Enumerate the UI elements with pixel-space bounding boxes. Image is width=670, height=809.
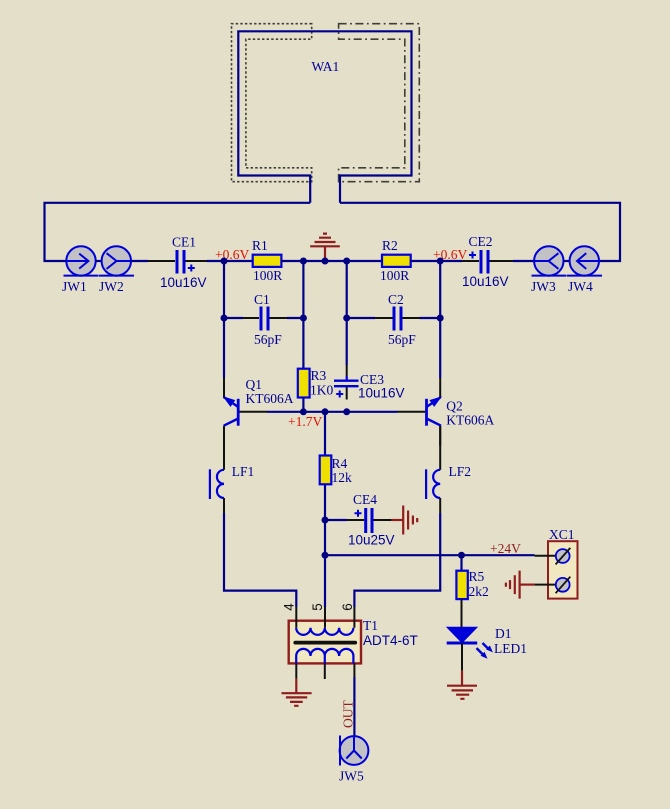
ground G5 (sideways left of XC1 pin2) [506, 571, 535, 599]
svg-text:10u16V: 10u16V [358, 386, 405, 401]
wire JW1-JW2 [96, 260, 102, 262]
wire right rail down (node to C2 to Q2) [439, 261, 441, 378]
svg-text:R3: R3 [311, 368, 327, 383]
wire CE2 to JW3 [513, 260, 534, 262]
svg-text:10u16V: 10u16V [462, 274, 509, 289]
svg-text:10u16V: 10u16V [160, 275, 207, 290]
svg-text:LF2: LF2 [449, 464, 472, 479]
junction ground stem top rail [322, 258, 329, 265]
ground G1 top (inverted) [310, 234, 340, 261]
wire R4 rail to +24V rail [324, 520, 326, 555]
wire LF1 down and to T1 pin4 [224, 513, 296, 607]
connector JW1 [64, 246, 99, 275]
wire antenna-left to JW1 [45, 203, 311, 261]
svg-text:+1.7V: +1.7V [288, 414, 322, 429]
junction CE4-left [322, 517, 329, 524]
junction R2-left [343, 258, 350, 265]
svg-text:JW5: JW5 [339, 769, 364, 784]
resistor R3 [298, 353, 310, 411]
svg-text:6: 6 [340, 603, 355, 611]
capacitor CE4 [325, 508, 392, 533]
ground G2 under T1 [282, 679, 312, 706]
svg-text:C1: C1 [254, 292, 270, 307]
wire mid-left rail down (R2-left to C2 to CE3) [346, 261, 348, 365]
svg-text:2k2: 2k2 [469, 584, 489, 599]
wire antenna-right to JW4 [340, 203, 620, 261]
ground G4 (sideways right of CE4) [392, 506, 418, 535]
inductor LF1 [210, 426, 224, 513]
resistor R2 [382, 255, 411, 267]
transistor Q2 [398, 378, 442, 446]
svg-text:LF1: LF1 [232, 464, 255, 479]
junction C1-right [300, 315, 307, 322]
svg-text:XC1: XC1 [549, 527, 575, 542]
capacitor CE2 [462, 250, 513, 274]
wire T1 pin to JW5 [353, 677, 355, 736]
svg-text:+24V: +24V [490, 541, 521, 556]
svg-text:OUT: OUT [341, 700, 356, 728]
wire R3 rail down [302, 261, 304, 353]
svg-text:JW2: JW2 [99, 279, 124, 294]
wire JW3-JW4 [564, 260, 570, 262]
resistor R1 [253, 255, 282, 267]
wire left rail down (node to C1 to Q1) [223, 261, 225, 378]
svg-text:D1: D1 [495, 626, 512, 641]
svg-text:WA1: WA1 [312, 59, 340, 74]
svg-text:4: 4 [281, 603, 296, 611]
svg-text:56pF: 56pF [254, 332, 282, 347]
svg-text:JW3: JW3 [531, 279, 556, 294]
junction R4-top on +1.7V rail [322, 408, 329, 415]
svg-text:JW4: JW4 [568, 279, 593, 294]
connector JW5 [340, 736, 369, 766]
svg-text:R4: R4 [332, 456, 348, 471]
terminal block XC1 [535, 541, 578, 598]
svg-text:KT606A: KT606A [246, 391, 294, 406]
svg-text:KT606A: KT606A [446, 413, 494, 428]
svg-text:T1: T1 [363, 618, 378, 633]
wire center rail to T1 pin5 [324, 555, 326, 607]
wire R2 to node right [411, 260, 463, 262]
svg-text:LED1: LED1 [494, 641, 527, 656]
junction R3-bottom on +1.7V rail [300, 408, 307, 415]
svg-text:10u25V: 10u25V [348, 533, 395, 548]
wire +24V rail [325, 554, 535, 556]
junction +24V rail at pin5 column [322, 552, 329, 559]
svg-text:JW1: JW1 [62, 279, 87, 294]
connector JW2 [99, 246, 134, 275]
transistor Q1 [224, 378, 267, 446]
capacitor C1 [224, 307, 303, 331]
LED D1 [447, 627, 493, 671]
junction CE3-bottom on +1.7V rail [343, 408, 350, 415]
capacitor CE3 [334, 365, 359, 400]
svg-text:+0.6V: +0.6V [215, 247, 249, 262]
junction C1-left [221, 315, 228, 322]
svg-text:100R: 100R [253, 268, 282, 283]
wire CE1 to node [207, 260, 253, 262]
svg-text:CE4: CE4 [353, 492, 377, 507]
connector JW3 [532, 246, 567, 275]
svg-text:56pF: 56pF [388, 332, 416, 347]
junction C2-right [437, 315, 444, 322]
svg-text:5: 5 [310, 603, 325, 611]
wire R1 to ground node rail [282, 260, 383, 262]
wire base rail +1.7V [267, 411, 398, 413]
junction node +0.6V left [221, 258, 228, 265]
antenna WA1 [232, 24, 420, 203]
wire R5 top [460, 555, 462, 571]
svg-text:R2: R2 [382, 238, 398, 253]
svg-text:R5: R5 [469, 569, 485, 584]
capacitor C2 [347, 307, 441, 331]
inductor LF2 [426, 426, 440, 513]
svg-text:1K0: 1K0 [310, 383, 333, 398]
svg-text:12k: 12k [332, 470, 353, 485]
ground G3 under D1 [447, 671, 477, 699]
junction node +0.6V right [437, 258, 444, 265]
capacitor CE1 [148, 250, 207, 274]
svg-text:ADT4-6T: ADT4-6T [363, 633, 418, 648]
wire LF2 down and to T1 pin6 [354, 513, 440, 607]
wire JW2 to CE1 [131, 260, 148, 262]
svg-text:Q1: Q1 [246, 377, 263, 392]
transformer T1 [289, 607, 361, 679]
junction R5-top on +24V rail [458, 552, 465, 559]
svg-text:CE1: CE1 [172, 235, 196, 250]
svg-text:Q2: Q2 [446, 399, 463, 414]
svg-text:C2: C2 [388, 292, 404, 307]
svg-text:CE2: CE2 [469, 234, 493, 249]
junction C2-left [343, 315, 350, 322]
junction R1-right [300, 258, 307, 265]
connector JW4 [567, 246, 602, 275]
resistor R4 [320, 412, 332, 520]
svg-text:R1: R1 [252, 238, 268, 253]
resistor R5 [456, 571, 467, 628]
svg-text:100R: 100R [380, 268, 409, 283]
